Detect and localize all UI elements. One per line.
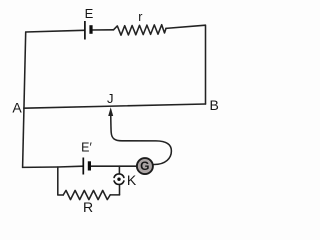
svg-text:E′: E′: [81, 141, 92, 155]
svg-text:G: G: [140, 159, 149, 173]
svg-text:R: R: [83, 199, 93, 215]
svg-text:E: E: [85, 6, 94, 21]
svg-text:r: r: [138, 10, 142, 24]
svg-text:K: K: [127, 172, 137, 188]
svg-text:J: J: [107, 91, 114, 106]
svg-text:B: B: [210, 97, 219, 113]
svg-text:A: A: [12, 100, 22, 116]
